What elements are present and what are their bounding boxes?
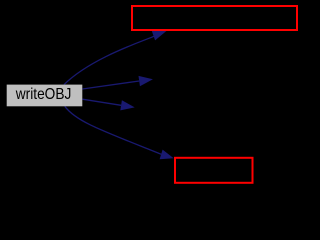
edge writeOBJ->node4 (straight, middle-lower)	[82, 99, 121, 105]
node5 (truncated node, red box, bottom)	[175, 158, 253, 183]
arrowhead edge writeOBJ->node4	[120, 100, 134, 110]
node writeOBJ (current node, grey box)	[7, 85, 83, 107]
edge writeOBJ->node3 (straight, middle-upper)	[82, 81, 139, 89]
edge writeOBJ->node2 (upper curve)	[64, 36, 154, 85]
arrowhead edge writeOBJ->node5	[160, 150, 174, 160]
edge writeOBJ->node5 (lower curve)	[65, 106, 162, 154]
node2 (truncated node, red box, top)	[132, 6, 297, 30]
svg-text:writeOBJ: writeOBJ	[15, 86, 71, 103]
arrowhead edge writeOBJ->node2	[152, 31, 167, 41]
arrowhead edge writeOBJ->node3	[139, 76, 153, 86]
